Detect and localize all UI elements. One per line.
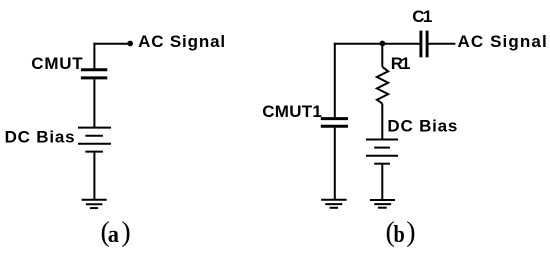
svg-text:(a): (a): [101, 217, 131, 248]
svg-text:DC Bias: DC Bias: [387, 116, 457, 135]
svg-text:DC Bias: DC Bias: [5, 128, 75, 147]
svg-text:CMUT: CMUT: [31, 54, 83, 73]
svg-text:R1: R1: [391, 54, 411, 73]
svg-text:(b): (b): [386, 217, 416, 248]
svg-text:AC Signal: AC Signal: [138, 32, 225, 51]
svg-text:CMUT1: CMUT1: [262, 102, 322, 121]
svg-text:C1: C1: [412, 7, 432, 26]
svg-text:AC Signal: AC Signal: [458, 32, 547, 51]
